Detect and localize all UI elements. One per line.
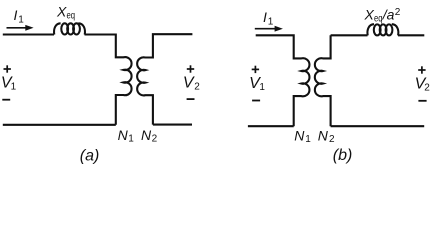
svg-text:N: N <box>141 127 152 143</box>
svg-text:2: 2 <box>152 134 158 145</box>
svg-text:(a): (a) <box>80 148 100 165</box>
svg-text:2: 2 <box>395 7 401 18</box>
svg-text:/a: /a <box>382 6 395 22</box>
svg-text:(b): (b) <box>333 147 353 164</box>
svg-text:V: V <box>183 74 195 91</box>
svg-text:I: I <box>263 9 267 25</box>
svg-text:2: 2 <box>424 82 430 93</box>
svg-text:2: 2 <box>329 134 335 145</box>
svg-text:X: X <box>364 6 375 22</box>
svg-text:1: 1 <box>268 17 274 28</box>
svg-text:I: I <box>14 7 18 23</box>
svg-text:1: 1 <box>259 82 265 93</box>
svg-text:N: N <box>294 127 305 143</box>
svg-text:1: 1 <box>128 134 134 145</box>
svg-text:N: N <box>318 127 329 143</box>
svg-text:eq: eq <box>67 11 76 22</box>
svg-text:1: 1 <box>18 14 24 25</box>
svg-text:1: 1 <box>305 134 311 145</box>
svg-text:eq: eq <box>374 13 383 24</box>
svg-text:X: X <box>56 3 67 19</box>
svg-text:1: 1 <box>11 82 17 93</box>
svg-text:N: N <box>118 127 129 143</box>
svg-text:2: 2 <box>194 81 200 92</box>
